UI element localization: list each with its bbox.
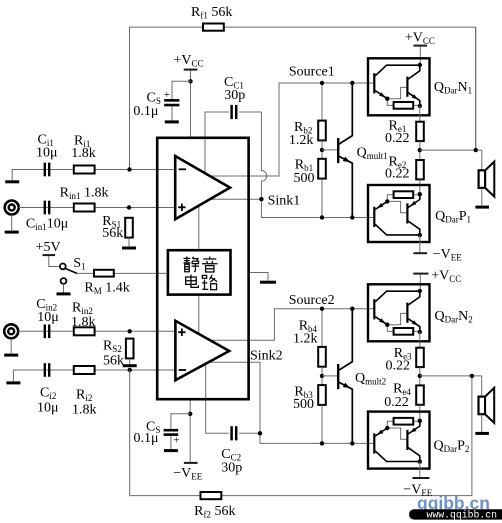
resistor Re2 <box>416 160 424 179</box>
svg-text:+: + <box>173 434 179 446</box>
wire S1 contactB ground stub <box>63 284 65 293</box>
ground under RS2 <box>123 364 137 367</box>
resistor Re1 <box>416 122 424 141</box>
label Ci2 <box>40 386 56 402</box>
resistor RS1 <box>125 218 133 238</box>
label CC2 value <box>221 461 242 476</box>
wire mute input <box>77 272 168 274</box>
ground IC right <box>260 281 276 284</box>
label Ci1 <box>38 133 54 149</box>
capacitor CC2 <box>232 426 237 440</box>
label Source1 <box>289 65 335 80</box>
wire RCA1 ground stub <box>11 215 13 231</box>
wire CC2 left <box>206 364 229 434</box>
label Re2 <box>389 155 407 171</box>
label S1 <box>73 256 85 272</box>
wire P2 to VEE <box>419 462 421 477</box>
node output2 <box>418 374 422 378</box>
power +5V supply <box>43 255 60 266</box>
label Rin2 <box>72 301 93 317</box>
wire Rb2 lead <box>321 83 323 131</box>
svg-text:1.8k: 1.8k <box>71 315 96 330</box>
label CC2 <box>221 447 241 463</box>
power -VEE P1 <box>413 252 427 254</box>
wire P1 to VEE <box>419 235 421 252</box>
power +VCC supply IC <box>184 70 198 138</box>
ground input2 left <box>6 381 20 384</box>
svg-text:500: 500 <box>294 171 315 186</box>
node Source1-Rb2 <box>320 81 324 85</box>
label CS1 plus <box>164 89 170 101</box>
label Re2 value <box>385 167 410 182</box>
label Source2 <box>289 293 335 308</box>
svg-text:10μ: 10μ <box>37 310 59 325</box>
label Qmult1 <box>357 146 388 162</box>
wire mute to opamp2 <box>198 295 200 334</box>
wire RS1 ground stub <box>128 238 130 247</box>
wire Rb4 lead <box>321 309 323 357</box>
wire CC1 right <box>239 111 261 113</box>
label Sink2 <box>250 349 283 364</box>
node VEE2 <box>188 412 192 416</box>
node RS1 tap <box>127 205 131 209</box>
label +VCC N2 <box>431 269 461 285</box>
svg-text:500: 500 <box>293 397 314 412</box>
resistor RS2 <box>126 339 134 359</box>
ground under CS1 <box>165 120 179 123</box>
svg-text:0.1μ: 0.1μ <box>134 431 159 446</box>
wire Re3-Re4 <box>419 367 421 395</box>
svg-text:Cin110μ: Cin110μ <box>26 217 68 233</box>
svg-text:10μ: 10μ <box>37 401 59 416</box>
node Qmult2 base <box>320 374 324 378</box>
label Rb3 value <box>293 397 314 412</box>
label +VCC IC <box>174 53 204 69</box>
svg-text:Rin1 1.8k: Rin1 1.8k <box>60 186 109 202</box>
svg-text:1.2k: 1.2k <box>293 332 318 347</box>
power +VCC N2 <box>413 274 428 291</box>
op-amp U2 plus <box>178 329 185 336</box>
wire output2 to speaker <box>420 376 482 397</box>
wire Re2 lead bottom <box>419 179 421 194</box>
label Ri1 <box>74 134 90 150</box>
resistor Rb1 <box>318 159 326 179</box>
node CC2 tap <box>258 431 262 435</box>
switch S1 contact A <box>60 264 66 270</box>
label Ci2 value <box>37 401 59 416</box>
svg-text:www.qqibb.cn: www.qqibb.cn <box>427 510 498 521</box>
svg-text:30p: 30p <box>221 461 242 476</box>
ground under RCA2 <box>4 354 18 357</box>
wire inverting input 1 <box>12 170 175 181</box>
resistor Rin1 <box>74 204 95 212</box>
watermark qqibb.cn <box>417 493 490 513</box>
wire non-inverting input 2 <box>18 330 175 332</box>
ground under CS2 <box>164 449 178 452</box>
label Rf2 56k <box>194 504 235 520</box>
wire Sink1 pin <box>210 198 262 200</box>
label -VEE P1 <box>433 247 463 263</box>
wire CC1 to sink1 with hop <box>261 112 374 218</box>
label CC1 value <box>224 88 245 103</box>
wire Sink2 pin <box>208 362 373 443</box>
svg-text:1.8k: 1.8k <box>72 403 97 418</box>
svg-text:RM 1.4k: RM 1.4k <box>84 281 129 297</box>
label QDarN1 <box>434 80 472 96</box>
wire Cs1 branch <box>172 81 191 120</box>
capacitor Ci1 <box>45 163 49 177</box>
label Re1 <box>389 119 407 135</box>
node feedback input1 <box>127 167 131 171</box>
label Re4 value <box>384 395 409 410</box>
label mute circuit text <box>184 257 218 290</box>
op-amp U1 <box>175 156 230 219</box>
label Rin1 1.8k <box>60 186 109 202</box>
switch S1 lever <box>66 269 77 274</box>
ground under speaker2 <box>475 432 489 435</box>
connector RCA jack input 1 <box>5 201 19 215</box>
wire Cs2 branch <box>171 414 190 449</box>
svg-text:0.22: 0.22 <box>386 359 411 374</box>
label Re4 <box>393 382 411 398</box>
label RM 1.4k <box>84 281 129 297</box>
capacitor Cin2 <box>45 325 49 339</box>
power -VEE supply IC <box>184 462 198 464</box>
label Cin2 value <box>37 310 59 325</box>
label QDarN2 <box>435 309 473 325</box>
label Sink1 <box>268 194 301 209</box>
op-amp U1 plus <box>178 204 185 211</box>
wire Rb1 lead <box>321 179 323 218</box>
resistor Ri1 <box>74 166 95 174</box>
node output1-feedback <box>474 148 478 152</box>
label Re1 value <box>385 131 410 146</box>
svg-text:Source2: Source2 <box>289 293 335 308</box>
label Rin2 value <box>71 315 96 330</box>
label CS2 <box>146 420 160 436</box>
label Re3 value <box>386 359 411 374</box>
svg-text:Source1: Source1 <box>289 65 335 80</box>
node output1 <box>418 148 422 152</box>
label +5V <box>36 240 61 255</box>
svg-text:Sink1: Sink1 <box>268 194 301 209</box>
node Rb1 bottom <box>320 215 324 219</box>
label Rb1 value <box>294 171 315 186</box>
label +VCC N1 <box>405 31 435 47</box>
ground under speaker1 <box>475 206 489 209</box>
label Re3 <box>394 346 412 362</box>
resistor Re1 lead top <box>419 106 421 132</box>
resistor Re4 <box>416 385 424 404</box>
transistor Qmult1 <box>338 83 352 218</box>
resistor Rb4 <box>318 347 326 367</box>
label QDarP1 <box>435 209 471 225</box>
label Rf1 56k <box>191 5 232 21</box>
node VCC1 <box>188 79 192 83</box>
watermark bar <box>409 509 502 520</box>
node Source2-Qmult2 collector <box>350 307 354 311</box>
darlington QDarN1 <box>368 58 430 115</box>
op-amp U1 minus <box>179 168 186 170</box>
label Rb4 value <box>293 332 318 347</box>
svg-text:0.22: 0.22 <box>384 395 409 410</box>
speaker channel 1 <box>479 162 495 206</box>
IC block box <box>157 138 248 399</box>
label RS1 <box>102 214 121 230</box>
connector RCA jack input 2 <box>4 324 18 338</box>
svg-text:0.1μ: 0.1μ <box>133 104 158 119</box>
wire inverting input 2 <box>13 370 175 381</box>
label Ri1 value <box>71 146 96 161</box>
node Qmult1 emitter bottom <box>350 215 354 219</box>
resistor Rf1 <box>203 24 224 31</box>
wire feedback channel 2 bottom <box>130 370 472 496</box>
wire Re4 lead bottom <box>419 405 421 420</box>
node Qmult2 emitter bottom <box>350 441 354 445</box>
capacitor Cin1 <box>45 201 49 215</box>
darlington QDarP2 <box>368 412 430 469</box>
svg-text:+5V: +5V <box>36 240 61 255</box>
mute circuit box <box>168 250 231 294</box>
power -VEE P2 <box>412 477 429 479</box>
label Rb2 value <box>289 133 314 148</box>
label CS1 value <box>133 104 158 119</box>
capacitor CS1 <box>164 100 179 105</box>
node output2-feedback <box>470 374 474 378</box>
wire non-inverting input 1 <box>19 207 175 209</box>
label CC1 <box>224 75 244 91</box>
node feedback input2 <box>128 368 132 372</box>
node Qmult1 base <box>320 148 324 152</box>
svg-text:1.8k: 1.8k <box>71 146 96 161</box>
svg-text:0.22: 0.22 <box>385 167 410 182</box>
ground input1 left <box>5 180 19 183</box>
switch S1 contact B <box>61 278 67 284</box>
wire VEE IC stem <box>189 399 191 462</box>
node Sink1 <box>259 197 263 201</box>
resistor Rin2 <box>74 327 95 335</box>
svg-text:Rf1 56k: Rf1 56k <box>191 5 232 21</box>
wire RS2 ground stub <box>129 358 131 364</box>
ground under RCA1 <box>5 231 19 234</box>
label CS2 plus <box>173 434 179 446</box>
label Cin1 10u <box>26 217 68 233</box>
svg-text:0.22: 0.22 <box>385 131 410 146</box>
node Rb3 bottom <box>320 441 324 445</box>
darlington QDarN2 <box>368 284 430 341</box>
label Rb3 <box>294 385 313 401</box>
label QDarP2 <box>434 439 470 455</box>
svg-text:30p: 30p <box>224 88 245 103</box>
ground under S1 <box>57 292 71 295</box>
wire Re1-Re2 <box>419 141 421 170</box>
wire Source2 pin <box>210 309 374 341</box>
label CS2 value <box>134 431 159 446</box>
resistor Rb3 <box>318 385 326 405</box>
svg-text:Sink2: Sink2 <box>250 349 283 364</box>
wire output1 to speaker <box>420 28 482 171</box>
label Qmult2 <box>355 371 386 387</box>
label Rb1 <box>295 158 313 174</box>
label RS2 value <box>103 354 124 369</box>
wire feedback channel 1 top <box>130 27 476 169</box>
label Ri2 value <box>72 403 97 418</box>
wire Rb4-Rb3 <box>321 367 323 395</box>
wire RCA2 ground stub <box>10 338 12 353</box>
label Rb4 <box>299 319 318 335</box>
ground under RS1 <box>122 247 136 250</box>
label RS2 <box>103 339 122 355</box>
label -VEE IC <box>173 466 203 482</box>
resistor Ri2 <box>74 366 95 374</box>
node Source1-Qmult1 collector <box>350 81 354 85</box>
speaker channel 2 <box>479 388 495 432</box>
wire Qmult2 base wire <box>322 375 337 377</box>
capacitor CS2 <box>164 430 179 434</box>
capacitor CC1 <box>232 105 237 119</box>
resistor Re3 lead top <box>419 332 421 358</box>
op-amp U2 minus <box>179 369 186 371</box>
label Ri2 <box>76 388 92 404</box>
label Cin2 <box>36 297 57 313</box>
resistor RM <box>94 270 114 277</box>
capacitor Ci2 <box>45 363 49 377</box>
label RS1 value <box>102 226 123 241</box>
svg-text:56k: 56k <box>102 226 123 241</box>
node RS2 tap <box>128 329 132 333</box>
resistor Re3 <box>416 348 424 367</box>
svg-text:Rf2 56k: Rf2 56k <box>194 504 235 520</box>
resistor Rf2 <box>201 492 222 499</box>
svg-text:10μ: 10μ <box>36 146 58 161</box>
op-amp U2 <box>175 321 229 380</box>
power +VCC N1 <box>414 46 428 65</box>
node Source2-Rb4 <box>320 307 324 311</box>
wire CC2 right <box>239 432 260 434</box>
wire IC ground <box>249 273 269 281</box>
resistor Rb2 <box>318 121 326 141</box>
wire Qmult1 base wire <box>322 149 337 151</box>
darlington QDarP1 <box>368 185 430 242</box>
svg-text:1.2k: 1.2k <box>289 133 314 148</box>
label CS1 <box>147 91 161 107</box>
transistor Qmult2 <box>338 309 352 444</box>
svg-text:+: + <box>164 89 170 101</box>
wire Rb3 lead <box>321 405 323 444</box>
wire CC1 left <box>205 112 229 173</box>
label -VEE P2 <box>403 483 433 499</box>
svg-text:56k: 56k <box>103 354 124 369</box>
label Ci1 value <box>36 146 58 161</box>
wire mute to opamp1 <box>198 206 200 251</box>
label Rb2 <box>294 120 312 136</box>
wire Rb2-Rb1 <box>321 140 323 168</box>
wire Source1 pin <box>210 83 374 176</box>
